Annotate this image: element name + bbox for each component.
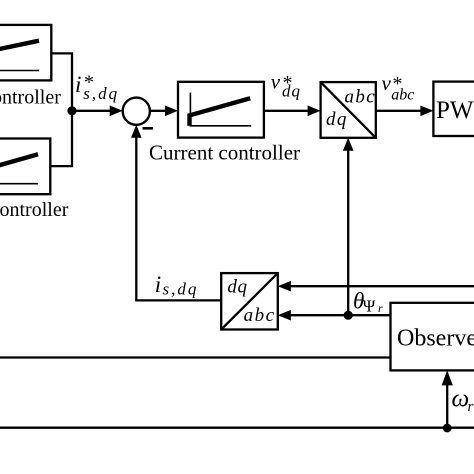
wire omega_r up into observer <box>446 383 448 428</box>
svg-text:i: i <box>75 72 81 97</box>
label i_s,dq <box>155 272 199 298</box>
svg-text:s,dq: s,dq <box>163 280 199 299</box>
svg-text:dq: dq <box>227 277 247 298</box>
PWM block (clipped at right) <box>433 82 474 136</box>
wire node to summing point <box>72 110 112 112</box>
label v*_dq <box>271 70 301 101</box>
label theta_Psi_r <box>353 289 383 316</box>
label omega_r <box>452 386 474 416</box>
wire theta up into dq/abc <box>347 149 349 315</box>
wire summing to current controller <box>150 110 167 112</box>
svg-text:dq: dq <box>326 109 348 130</box>
wire measured currents into observer <box>0 356 391 358</box>
svg-text:r: r <box>468 399 474 415</box>
svg-text:dq: dq <box>282 82 301 101</box>
svg-text:Observer: Observer <box>397 326 474 352</box>
minus sign <box>143 127 154 130</box>
label v*_abc <box>382 71 415 104</box>
svg-text:Ψ: Ψ <box>363 296 376 315</box>
svg-text:abc: abc <box>391 87 414 104</box>
summing junction <box>123 98 150 125</box>
node theta junction <box>344 311 353 320</box>
node reference-current junction <box>67 106 76 115</box>
flux controller block B2 (clipped at left) <box>0 139 50 195</box>
svg-text:ontroller: ontroller <box>0 87 61 109</box>
svg-text:ontroller: ontroller <box>0 199 69 221</box>
svg-text:PWM: PWM <box>436 97 474 124</box>
svg-text:ω: ω <box>452 386 470 413</box>
transformation block abc->dq U2 <box>221 273 278 329</box>
node speed junction <box>443 424 452 433</box>
svg-text:abc: abc <box>345 86 377 107</box>
speed controller block B1 (clipped at left) <box>0 25 51 81</box>
observer block (clipped at right) <box>391 303 474 371</box>
current controller block <box>178 82 264 138</box>
svg-text:v: v <box>271 70 281 94</box>
svg-text:v: v <box>382 71 392 95</box>
svg-text:Current controller: Current controller <box>149 141 300 165</box>
transformation block dq->abc U1 <box>321 82 377 138</box>
wire CC to dq/abc <box>264 110 310 112</box>
wire B1 output to node <box>50 53 72 166</box>
label i*_s,dq <box>75 72 119 103</box>
svg-text:abc: abc <box>244 305 276 326</box>
feedback wire i_s,dq to summing <box>136 136 221 301</box>
svg-text:s,dq: s,dq <box>83 84 119 103</box>
svg-text:r: r <box>378 301 383 315</box>
wire speed feedback bottom <box>0 427 474 429</box>
svg-text:i: i <box>155 272 161 297</box>
wire i_s,abc from right into U2 <box>289 285 474 287</box>
wire dq/abc to PWM <box>376 110 423 112</box>
wire theta from observer into U2 <box>289 314 391 316</box>
